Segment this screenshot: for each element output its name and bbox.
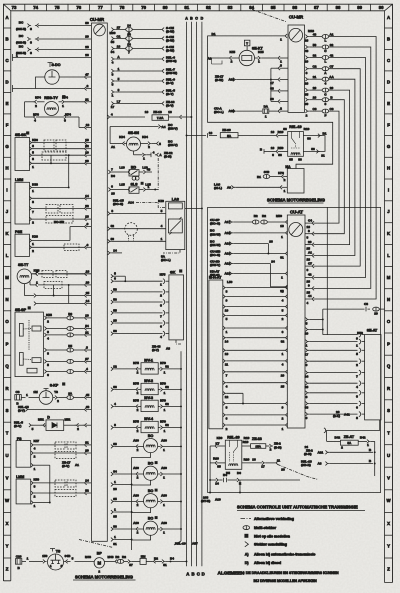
svg-text:N75: N75: [133, 361, 139, 365]
svg-text:C8: C8: [364, 302, 368, 306]
svg-text:B2: B2: [122, 555, 126, 559]
svg-text:CU-AT: CU-AT: [290, 210, 303, 215]
wire GK row: [111, 329, 169, 339]
svg-text:N74: N74: [35, 96, 41, 100]
svg-text:82: 82: [165, 402, 169, 406]
svg-text:T: T: [6, 431, 9, 436]
wire CU-AT left row: [210, 229, 288, 239]
svg-text:3: 3: [30, 51, 32, 55]
svg-text:(BO-L): (BO-L): [214, 110, 224, 114]
svg-text:13: 13: [85, 215, 89, 219]
svg-text:A9: A9: [227, 185, 231, 189]
svg-text:1: 1: [163, 503, 165, 507]
svg-text:31: 31: [280, 256, 284, 260]
svg-text:GK: GK: [170, 270, 176, 274]
svg-text:L10: L10: [119, 166, 125, 170]
wire SE-GP row: [44, 330, 91, 340]
svg-text:(G-V): (G-V): [166, 103, 174, 107]
svg-text:M: M: [98, 561, 102, 566]
right ruler letters A-Z: [385, 15, 393, 571]
svg-text:CU-MR: CU-MR: [289, 15, 304, 20]
svg-text:56: 56: [313, 43, 317, 47]
node A wire: [185, 17, 189, 577]
svg-text:A57: A57: [192, 541, 198, 545]
svg-text:73: 73: [12, 5, 17, 10]
svg-text:S-KP: S-KP: [50, 384, 59, 388]
svg-text:86: 86: [298, 158, 302, 162]
svg-text:N76: N76: [33, 113, 39, 117]
shield LMM dashed screen: [46, 205, 73, 224]
svg-text:P: P: [6, 341, 9, 346]
svg-text:6: 6: [282, 330, 284, 334]
svg-text:1: 1: [164, 429, 166, 433]
svg-text:44: 44: [308, 294, 312, 298]
svg-text:M: M: [5, 275, 9, 280]
wire bottom hook row: [201, 480, 241, 503]
svg-text:8: 8: [47, 352, 49, 356]
svg-text:L7: L7: [117, 100, 121, 104]
svg-text:D6: D6: [237, 471, 241, 475]
wire M-H-AT row: [223, 381, 288, 389]
wire A41 label row: [333, 410, 350, 418]
wire CU-MR2 right pin row 7 to bus: [305, 96, 345, 240]
svg-text:SE-AT: SE-AT: [367, 329, 378, 333]
svg-text:5: 5: [114, 272, 116, 276]
svg-text:A30: A30: [161, 438, 167, 442]
svg-text:5: 5: [47, 363, 49, 367]
wire GK row: [111, 298, 169, 308]
svg-text:A30: A30: [161, 521, 167, 525]
svg-text:26: 26: [305, 39, 309, 43]
wire SE-GP row: [44, 344, 91, 356]
wire CU-AT left row: [210, 239, 273, 253]
wire LAS row pin4 with dashed circle: [108, 223, 166, 236]
node legend D diesel: [245, 561, 281, 565]
svg-text:3: 3: [61, 564, 63, 568]
svg-text:SE-GP: SE-GP: [15, 308, 27, 312]
svg-text:SE-SN: SE-SN: [128, 131, 139, 135]
svg-text:K47: K47: [33, 439, 39, 443]
svg-text:86: 86: [278, 153, 282, 157]
svg-text:B1: B1: [257, 175, 261, 179]
svg-text:7: 7: [356, 374, 358, 378]
svg-text:BC: BC: [19, 44, 24, 48]
svg-text:C7: C7: [308, 261, 312, 265]
svg-text:85: 85: [271, 5, 276, 10]
svg-text:82: 82: [165, 385, 169, 389]
svg-text:R19: R19: [243, 440, 249, 444]
svg-text:18: 18: [307, 257, 311, 261]
transistor SE-GK knock sensor box: [15, 132, 38, 171]
wire CU-MR2 right pin row 3 to bus: [305, 54, 366, 284]
wire M-H-AT row: [223, 402, 288, 410]
svg-text:54: 54: [85, 324, 89, 328]
wire LAS pin14 stub: [108, 249, 122, 255]
wire M-H-AT row: [223, 286, 288, 294]
wire CU-MR right dest row: [111, 55, 176, 64]
svg-text:25: 25: [281, 385, 285, 389]
svg-text:A1: A1: [308, 251, 312, 255]
svg-text:ZE-18: ZE-18: [153, 110, 162, 114]
svg-text:17: 17: [261, 465, 265, 469]
svg-text:Alternatieve verbinding: Alternatieve verbinding: [254, 517, 294, 521]
svg-text:3: 3: [30, 41, 32, 45]
svg-text:BO: BO: [148, 462, 154, 466]
node D wire: [201, 17, 205, 577]
svg-text:2: 2: [34, 455, 36, 459]
svg-text:11: 11: [225, 363, 229, 367]
wire CU-AT right row to SE-AT: [305, 381, 365, 390]
fuse ZE-23 15A: [242, 437, 282, 452]
svg-text:4: 4: [282, 298, 284, 302]
svg-text:X: X: [6, 521, 9, 526]
wire CU-MR2 right pin row 1 to bus: [305, 29, 376, 305]
svg-text:C8: C8: [16, 390, 20, 394]
svg-text:(B-W): (B-W): [166, 29, 174, 33]
svg-text:C7: C7: [330, 65, 334, 69]
svg-text:D: D: [5, 79, 8, 84]
svg-text:4: 4: [34, 447, 36, 451]
svg-text:(B-W): (B-W): [215, 78, 223, 82]
svg-text:(NI-L): (NI-L): [214, 186, 222, 190]
svg-text:1: 1: [281, 276, 283, 280]
wire CU-MR right dest row: [111, 100, 175, 109]
wire row pin 26 from border: [13, 53, 92, 61]
wire ZE-2 row: [304, 445, 376, 456]
svg-text:2: 2: [137, 391, 139, 395]
wire SE-GP row: [44, 357, 91, 367]
svg-text:B2: B2: [262, 214, 266, 218]
wire CU-MR2 right pin row 8 to bus: [305, 107, 339, 229]
svg-text:82: 82: [206, 5, 211, 10]
wire injector return bus: [131, 457, 133, 550]
svg-text:85: 85: [289, 158, 293, 162]
svg-text:B: B: [387, 36, 390, 41]
svg-text:R59: R59: [278, 146, 284, 150]
wire NA pin row 1: [257, 170, 287, 182]
svg-text:4: 4: [112, 60, 114, 64]
svg-text:16: 16: [209, 131, 213, 135]
svg-text:LMM: LMM: [15, 178, 23, 182]
svg-text:B: B: [190, 17, 193, 21]
svg-text:ISV-2: ISV-2: [144, 379, 153, 383]
svg-text:9: 9: [306, 363, 308, 367]
svg-text:36: 36: [311, 147, 315, 151]
transistor BP fuel pump motor: [85, 552, 114, 574]
wire M-H-AT row: [223, 359, 288, 367]
svg-text:7.5A: 7.5A: [157, 116, 164, 120]
svg-text:8: 8: [306, 71, 308, 75]
wire REL-20 left rows: [210, 442, 225, 481]
wire BC row 1: [16, 20, 91, 31]
svg-text:81: 81: [113, 542, 117, 546]
svg-text:1: 1: [16, 54, 18, 58]
svg-text:3: 3: [30, 27, 32, 31]
svg-text:(BW-G): (BW-G): [166, 59, 177, 63]
svg-text:5: 5: [159, 142, 161, 146]
svg-text:8: 8: [111, 209, 113, 213]
svg-text:N74: N74: [65, 113, 71, 117]
svg-text:1: 1: [282, 289, 284, 293]
svg-text:(BN-W): (BN-W): [210, 232, 220, 236]
svg-text:76: 76: [76, 5, 81, 10]
svg-text:7: 7: [226, 374, 228, 378]
wire CU-AT right row to SE-AT: [305, 348, 365, 357]
svg-text:LMM: LMM: [16, 475, 24, 479]
svg-text:2: 2: [137, 408, 139, 412]
node legend stekker aansluiting: [245, 542, 287, 547]
svg-text:N75: N75: [160, 272, 166, 276]
wire REL-15 dash-dot row: [113, 199, 166, 208]
wire REG-TV lower row: [25, 113, 92, 130]
svg-text:(BO-G): (BO-G): [113, 202, 123, 206]
svg-text:34: 34: [113, 470, 117, 474]
svg-text:D: D: [387, 79, 390, 84]
wire CU-MR right dest row: [111, 32, 175, 44]
wire CU-MR2 right pin row 2 to bus: [305, 43, 371, 294]
svg-text:3: 3: [118, 88, 120, 92]
svg-text:7: 7: [32, 210, 34, 214]
wire FS row: [31, 449, 91, 459]
wire CU-MR right dest row: [111, 67, 177, 76]
op-amp U2 CU-MR ECU box right: [288, 15, 305, 113]
svg-text:L: L: [324, 39, 326, 43]
svg-text:16: 16: [145, 110, 149, 114]
svg-text:(B-V): (B-V): [14, 424, 21, 428]
wire alternative dash-dot vertical: [157, 158, 159, 190]
svg-text:2: 2: [32, 249, 34, 253]
wire SE-GK row: [29, 144, 91, 154]
wire C8 capsule row: [323, 302, 385, 315]
svg-text:2: 2: [77, 427, 79, 431]
svg-text:PSE: PSE: [15, 230, 23, 234]
svg-text:86: 86: [113, 329, 117, 333]
svg-text:8: 8: [325, 102, 327, 106]
svg-text:35: 35: [113, 497, 117, 501]
wire LMM2 row 3: [31, 501, 51, 509]
wire CU-MR right dest row: [111, 42, 175, 54]
svg-text:8: 8: [226, 289, 228, 293]
svg-text:14: 14: [225, 340, 229, 344]
svg-text:(2-V): (2-V): [18, 408, 25, 412]
wire LMM row: [29, 204, 91, 214]
svg-text:85: 85: [113, 515, 117, 519]
transistor TS ignition starter switch: [22, 549, 94, 571]
svg-text:D: D: [47, 415, 50, 419]
wire CU-AT left row: [210, 214, 288, 228]
wire CU-AT right row y329: [305, 328, 324, 336]
wire M-H-AT row: [223, 370, 288, 378]
svg-text:(B-R): (B-R): [164, 155, 172, 159]
svg-text:(BW-V): (BW-V): [210, 263, 220, 267]
svg-text:C10: C10: [16, 554, 22, 558]
relay REL-19: [283, 125, 311, 162]
svg-text:2: 2: [57, 399, 59, 403]
svg-text:1: 1: [112, 93, 114, 97]
svg-text:15: 15: [307, 290, 311, 294]
svg-text:I: I: [6, 187, 7, 192]
svg-text:REL-19: REL-19: [289, 125, 301, 129]
wire SE-GP row: [44, 324, 91, 334]
wire CU-AT left row: [210, 249, 288, 259]
svg-text:C6: C6: [330, 107, 334, 111]
svg-text:S49: S49: [264, 170, 270, 174]
inductor ISV-4 idle valve: [111, 417, 182, 433]
wire M-H-AT row: [223, 305, 288, 313]
svg-text:30: 30: [270, 97, 274, 101]
svg-text:1: 1: [143, 156, 145, 160]
svg-text:K45: K45: [258, 50, 264, 54]
wire REL-20 right row2: [242, 457, 318, 479]
svg-text:S-DO: S-DO: [52, 63, 61, 67]
transistor SE-SN speed sensor: [110, 131, 178, 151]
svg-text:K43: K43: [32, 183, 38, 187]
wire LMM row: [29, 194, 91, 204]
svg-text:R19: R19: [244, 436, 250, 440]
svg-text:14: 14: [127, 23, 131, 27]
svg-text:16: 16: [252, 457, 256, 461]
svg-text:BO: BO: [148, 489, 154, 493]
svg-text:I: I: [388, 187, 389, 192]
svg-text:5: 5: [356, 352, 358, 356]
wire M-H-AT row: [223, 391, 243, 403]
svg-text:2: 2: [282, 417, 284, 421]
svg-text:Niet op alle modellen: Niet op alle modellen: [254, 534, 290, 538]
svg-text:9: 9: [87, 222, 89, 226]
svg-text:16: 16: [271, 130, 275, 134]
svg-text:A2: A2: [208, 57, 212, 61]
wire CU-AT right row to SE-AT: [305, 390, 364, 399]
resistor SE-GP pedal sensor box: [15, 307, 52, 377]
svg-text:1: 1: [164, 391, 166, 395]
svg-text:A10: A10: [215, 497, 221, 501]
svg-text:46: 46: [313, 33, 317, 37]
wire SE-AT top pin: [323, 309, 365, 340]
svg-text:1: 1: [26, 393, 28, 397]
svg-text:B: B: [192, 572, 195, 577]
svg-text:45: 45: [86, 393, 90, 397]
svg-text:5: 5: [161, 209, 163, 213]
svg-text:Y: Y: [387, 544, 390, 549]
svg-text:B2: B2: [254, 214, 258, 218]
svg-text:6: 6: [226, 417, 228, 421]
svg-text:92: 92: [330, 43, 334, 47]
svg-text:A1: A1: [75, 463, 79, 467]
svg-text:20: 20: [85, 159, 89, 163]
svg-text:H: H: [5, 166, 8, 171]
svg-text:: DE DRAADKLEUREN EN STEKERNUM: : DE DRAADKLEUREN EN STEKERNUMMERS KUNNE…: [244, 571, 339, 575]
svg-text:5: 5: [306, 321, 308, 325]
node legend multi-stekker: [243, 526, 277, 531]
svg-text:36: 36: [113, 385, 117, 389]
svg-text:32: 32: [111, 224, 115, 228]
svg-text:S: S: [6, 408, 9, 413]
wire alternative dash-dot at CU-MR bottom: [79, 540, 113, 548]
wire M-H-AT row: [223, 314, 288, 322]
svg-text:2: 2: [137, 503, 139, 507]
svg-text:(B-R): (B-R): [274, 445, 282, 449]
svg-text:AA: AA: [329, 75, 334, 79]
svg-text:2: 2: [137, 371, 139, 375]
svg-text:M59: M59: [276, 214, 282, 218]
svg-text:Z: Z: [6, 566, 9, 571]
svg-text:(B-W): (B-W): [166, 38, 174, 42]
svg-text:8: 8: [308, 229, 310, 233]
svg-text:C1: C1: [117, 35, 121, 39]
svg-text:B2: B2: [154, 557, 158, 561]
transistor SE-KT throttle switch: [208, 40, 288, 65]
svg-text:30: 30: [111, 237, 115, 241]
svg-text:C: C: [197, 572, 200, 577]
svg-text:BP: BP: [97, 552, 103, 556]
svg-text:36: 36: [307, 137, 311, 141]
svg-text:Alleen bij diesel: Alleen bij diesel: [254, 561, 281, 565]
svg-text:17: 17: [305, 352, 309, 356]
svg-text:30: 30: [305, 102, 309, 106]
svg-text:2: 2: [284, 178, 286, 182]
svg-text:4: 4: [307, 301, 309, 305]
svg-text:A30: A30: [161, 466, 167, 470]
op-amp GK unit box: [160, 270, 184, 340]
wire REL-13 row: [18, 405, 91, 412]
wire REL-19 left row2: [260, 146, 288, 157]
svg-text:4: 4: [153, 151, 155, 155]
wire SE-GP row: [44, 367, 91, 377]
svg-text:1: 1: [32, 165, 34, 169]
wire LMM2 row: [31, 489, 91, 499]
op-amp NA box: [285, 165, 304, 193]
svg-text:K7: K7: [216, 442, 220, 446]
transistor S-KP kickdown switch: [15, 383, 91, 406]
svg-text:K84: K84: [119, 135, 125, 139]
svg-text:38: 38: [305, 406, 309, 410]
svg-text:K45: K45: [229, 50, 235, 54]
wire GK row: [111, 308, 169, 318]
svg-text:C4: C4: [308, 218, 312, 222]
wire M-H-AT row: [223, 295, 288, 303]
svg-text:32: 32: [85, 489, 89, 493]
svg-text:B4: B4: [223, 473, 227, 477]
svg-text:DA: DA: [264, 105, 269, 109]
svg-text:1: 1: [282, 427, 284, 431]
svg-text:2: 2: [226, 427, 228, 431]
svg-text:2: 2: [35, 104, 37, 108]
svg-text:1: 1: [356, 343, 358, 347]
wire SE-GP row: [44, 312, 91, 324]
svg-text:29: 29: [281, 374, 285, 378]
svg-text:81: 81: [184, 5, 189, 10]
svg-text:Stekker aansluiting: Stekker aansluiting: [254, 543, 287, 547]
node legend alternative: [241, 517, 294, 521]
svg-text:9: 9: [306, 416, 308, 420]
wire BC row 3: [16, 44, 91, 55]
svg-text:29: 29: [313, 86, 317, 90]
svg-text:(BO-G): (BO-G): [210, 253, 220, 257]
svg-text:83: 83: [228, 5, 233, 10]
svg-text:SE-GK: SE-GK: [15, 133, 27, 137]
top ruler numbers 73-90: [12, 4, 385, 11]
svg-text:P: P: [387, 341, 390, 346]
svg-text:SE-TT: SE-TT: [18, 263, 29, 267]
svg-text:R19: R19: [304, 127, 310, 131]
svg-text:K55: K55: [46, 313, 52, 317]
svg-text:8: 8: [32, 157, 34, 161]
svg-text:35: 35: [111, 40, 115, 44]
svg-text:26: 26: [305, 81, 309, 85]
svg-text:32: 32: [85, 144, 89, 148]
svg-text:A: A: [186, 572, 189, 577]
wire D1 route: [208, 32, 333, 169]
